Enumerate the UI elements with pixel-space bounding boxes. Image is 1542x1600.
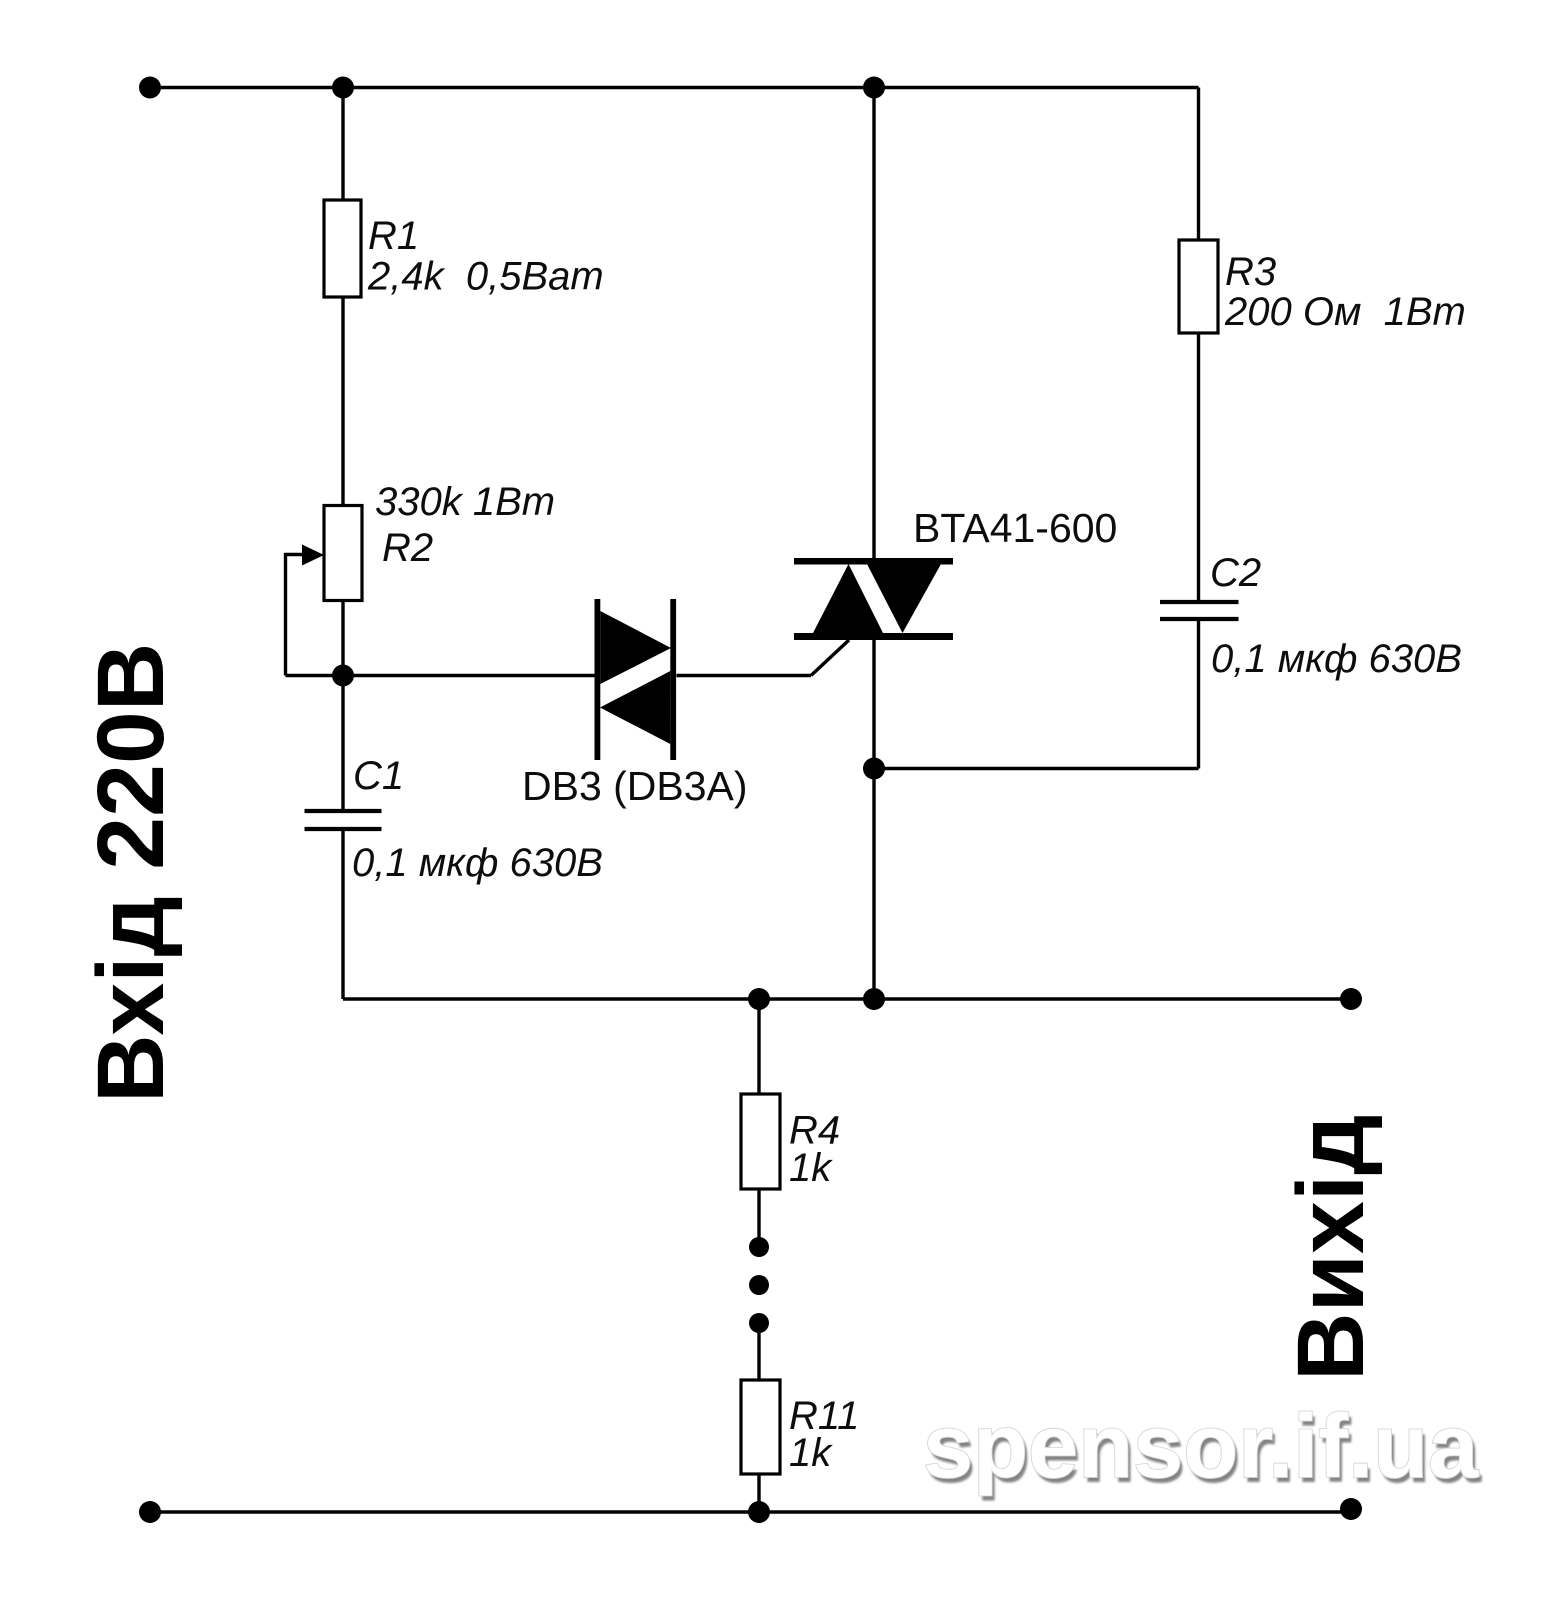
node junction triac / C2 branch	[863, 758, 885, 780]
svg-text:R1: R1	[368, 214, 419, 258]
wire gate diagonal	[811, 640, 849, 676]
resistor R3 body	[1179, 240, 1218, 333]
svg-text:0,1 мкф 630В: 0,1 мкф 630В	[352, 841, 603, 885]
node junction bottom bus / R11	[748, 1501, 770, 1523]
diac DB3	[595, 599, 677, 760]
wire R4 to dotted break	[757, 1189, 760, 1238]
svg-text:C2: C2	[1210, 551, 1261, 595]
watermark spensor.if.ua	[923, 1397, 1482, 1502]
potentiometer R2 wiper arrow	[302, 545, 324, 566]
resistor R4 body	[741, 1094, 780, 1189]
wire node to R4	[757, 999, 760, 1094]
node input terminal bottom-left	[139, 1501, 161, 1523]
wire top bus to triac	[872, 88, 875, 559]
svg-text:200 Ом 1Вт: 200 Ом 1Вт	[1224, 290, 1466, 334]
svg-text:1k: 1k	[789, 1146, 833, 1190]
node junction mid bus / triac leg	[863, 988, 885, 1010]
svg-text:2,4k 0,5Ват: 2,4k 0,5Ват	[367, 255, 604, 299]
triac U1 BTA41-600	[794, 558, 953, 640]
svg-text:C1: C1	[353, 754, 404, 798]
svg-text:330k 1Вт: 330k 1Вт	[375, 480, 555, 524]
wire C1 to bottom-left corner	[341, 829, 344, 999]
svg-text:BTA41-600: BTA41-600	[913, 505, 1117, 551]
svg-text:Вихід: Вихід	[1278, 1114, 1384, 1381]
wire R1 to R2	[341, 297, 344, 506]
ellipsis dot 3 of resistor chain	[749, 1313, 769, 1333]
svg-text:R2: R2	[382, 526, 433, 570]
wire R11 to bottom bus	[757, 1474, 760, 1512]
svg-text:DB3 (DB3A): DB3 (DB3A)	[522, 763, 748, 809]
svg-text:R3: R3	[1225, 250, 1276, 294]
wire R3 bottom to C2 top	[1197, 333, 1200, 602]
node junction top bus / triac branch	[863, 77, 885, 99]
wire top bus from input terminal to right column	[150, 86, 1199, 89]
node output terminal mid-right	[1340, 988, 1362, 1010]
svg-text:spensor.if.ua: spensor.if.ua	[923, 1397, 1479, 1497]
svg-text:1k: 1k	[789, 1431, 833, 1475]
capacitor C2 plates	[1160, 602, 1239, 619]
wire node A to diac	[286, 674, 595, 677]
wire R2 to C1	[341, 601, 344, 812]
resistor R1 body	[324, 200, 361, 297]
wire diac to triac gate	[677, 674, 812, 677]
wire R2 wiper feed	[286, 555, 307, 676]
wire triac anode2 node to C2 branch	[874, 767, 1199, 770]
wire C2 bottom down to mid node row	[1197, 619, 1200, 769]
wire dotted break to R11	[757, 1333, 760, 1380]
capacitor C1 plates	[305, 811, 382, 829]
wire bottom bus	[150, 1510, 1351, 1513]
node A junction R2 / C1 / diac	[332, 665, 354, 687]
svg-text:0,1 мкф 630В: 0,1 мкф 630В	[1211, 637, 1462, 681]
node junction mid bus / R4 branch	[748, 988, 770, 1010]
node input terminal top-left	[139, 77, 161, 99]
wire triac to bottom node	[872, 640, 875, 999]
node junction top bus / R1 branch	[332, 77, 354, 99]
resistor R11 body	[741, 1380, 780, 1474]
potentiometer R2 body	[324, 506, 362, 601]
ellipsis dot 1 of resistor chain	[749, 1237, 769, 1257]
wire right column down to R3	[1197, 88, 1200, 241]
wire top bus to R1	[341, 88, 344, 201]
ellipsis dot 2 of resistor chain	[749, 1275, 769, 1295]
node output terminal bottom-right	[1340, 1498, 1362, 1520]
wire mid bottom bus	[343, 997, 1351, 1000]
svg-text:Вхід 220В: Вхід 220В	[78, 643, 184, 1103]
